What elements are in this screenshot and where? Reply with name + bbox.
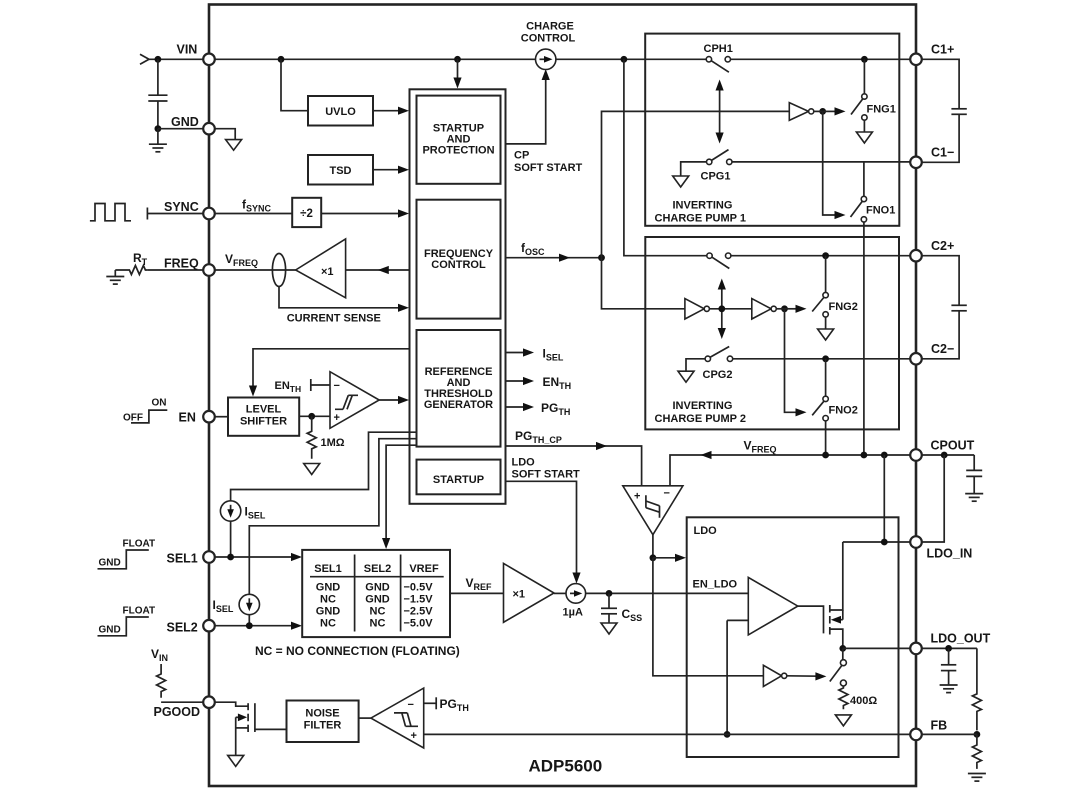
resistor RT at FREQ [115,266,147,275]
svg-text:+: + [411,730,417,742]
terminal PGTH input [424,702,437,704]
wire VREF table to buffer [450,592,504,594]
wire CPG2 to ground [686,359,705,371]
wire arrow to FNG2 [785,308,800,310]
ground earth at LDO_OUT cap [940,685,958,693]
svg-text:LDO_OUT: LDO_OUT [931,632,991,646]
svg-text:LEVEL: LEVEL [246,404,282,416]
resistor feedback divider bottom [972,734,981,769]
block FREQUENCY CONTROL [417,200,501,319]
node LDO_OUT cap tap [945,645,952,652]
svg-text:VIN: VIN [177,43,198,57]
node FB divider junction [974,731,981,738]
wire VIN down into startup block [457,59,459,80]
wire GND lead below to earth [157,129,159,144]
svg-text:SEL1: SEL1 [314,563,342,575]
wire external CPOUT to LDO_IN [922,455,945,542]
svg-text:C2+: C2+ [931,239,954,253]
wire comparator output [652,535,654,558]
current source 1uA [566,584,586,604]
pin PGOOD [203,696,215,708]
wire arrow to FNG1 [823,110,838,112]
current source ISEL 2 [239,594,259,614]
wire EN comparator to reference block [379,399,401,401]
table SEL decode box [302,550,450,637]
wire LDO_OUT external [922,647,977,649]
svg-text:−0.5V: −0.5V [404,582,434,594]
svg-text:INVERTING: INVERTING [673,200,733,212]
wire FB pin to divider [922,733,977,735]
box INVERTING CHARGE PUMP 1 [645,34,899,226]
svg-text:SOFT START: SOFT START [514,162,583,174]
wire FB line across to pin [424,733,911,735]
wire VIN to UVLO [281,59,308,110]
svg-text:GND: GND [316,582,341,594]
wire FNO1 down to VFREQ line [863,222,865,455]
transistor PGOOD NMOS channel bar [247,703,249,710]
block STARTUP AND PROTECTION [417,96,501,184]
input chevron VIN source [140,54,149,64]
node CSS tap [606,590,613,597]
svg-text:GND: GND [99,625,121,636]
node CP2 gate drive tee [781,305,788,312]
wire FNO2 down to VFREQ line [825,421,827,455]
switch discharge 400 ohm [842,648,844,660]
wire SYNC to divider [215,213,293,215]
resistor 400 ohm [839,686,848,709]
svg-text:FREQ: FREQ [164,257,199,271]
pin LDO_OUT [910,643,922,655]
wire GND pin lead [158,128,204,130]
node SEL1 junction [227,554,234,561]
svg-text:GND: GND [365,582,390,594]
block STARTUP [417,460,501,495]
node VFREQ FNO1 junction [861,452,868,459]
block NOISE FILTER [287,701,359,743]
svg-text:VREF: VREF [409,563,439,575]
svg-text:÷2: ÷2 [300,208,313,220]
ground earth below input cap [149,144,167,152]
transistor body arrow NMOS [236,716,243,718]
pin VIN [203,54,215,66]
resistor 1M [307,416,316,459]
svg-text:+: + [634,491,640,503]
switch CPG1 [707,159,712,164]
wire LDO soft start to 1uA source [506,481,577,576]
svg-text:C1−: C1− [931,146,954,160]
ground earth at divider [968,774,986,782]
node EN_LDO control tee [650,554,657,561]
ground triangle at PGOOD FET [228,755,244,766]
svg-text:1MΩ: 1MΩ [321,437,345,449]
ground triangle below FNG2 [825,317,827,328]
wire VIN rail [149,58,707,60]
capacitor input VIN-GND [157,59,159,95]
central control block outer box [410,89,506,504]
wire CPG1 to C1- pin [732,161,911,163]
wire level shifter to comparator [299,415,330,417]
hysteresis glyph soft start comparator [646,495,660,518]
svg-text:FNO2: FNO2 [829,405,858,417]
transistor drain tap lower [830,629,843,648]
inverter discharge control [763,665,781,686]
wire gate from noise filter [255,728,287,730]
wire VIN down to CP2 input [624,59,707,255]
wire control into LDO box [653,557,678,559]
transistor gate bar [254,703,256,732]
outer IC boundary box ADP5600 [209,5,916,787]
wire EN_LDO line to error amp [586,592,749,594]
wire FREQ pin to buffer output [215,269,296,271]
svg-text:EN_LDO: EN_LDO [693,579,738,591]
node C1+ FNG1 tap [861,56,868,63]
ground triangle at CSS [601,623,617,634]
svg-text:OFF: OFF [123,413,143,424]
wire divider to frequency control [321,213,401,215]
capacitor external C1 [922,59,960,108]
pin FREQ [203,264,215,276]
svg-text:ADP5600: ADP5600 [529,757,603,776]
wire frequency control to buffer input [346,269,410,271]
hysteresis glyph EN comparator [335,395,358,409]
svg-text:FB: FB [931,719,948,733]
wire reference to ISEL source 2 [249,439,416,595]
double arrow CP2 switch control [721,286,723,333]
svg-text:×1: ×1 [321,266,334,278]
svg-text:NOISE: NOISE [305,708,339,720]
wire ISEL source 1 to SEL1 line [230,521,232,557]
current source ISEL 1 [220,501,240,521]
comparator PGOOD [371,688,424,748]
table header rule [310,576,444,578]
node CPOUT to LDO_IN link [941,452,948,459]
block TSD [308,155,373,185]
wire EN feedback from reference block [253,349,410,388]
pin SYNC [203,208,215,220]
wire inverter1 to inverter2 [709,308,751,310]
svg-text:NC: NC [370,606,386,618]
wire TSD to startup block [373,169,401,171]
svg-text:FLOAT: FLOAT [123,539,156,550]
node VIN input cap junction [155,56,162,63]
svg-text:CHARGE PUMP 1: CHARGE PUMP 1 [655,213,746,225]
pin CPOUT [910,449,922,461]
node C2- FNO2 tap [822,355,829,362]
node fOSC clock tee [598,254,605,261]
resistor feedback divider top [972,648,981,730]
svg-text:−: − [334,380,340,392]
switch FNO1 [863,162,865,196]
wire inverter to switch [787,675,819,677]
node C2+ FNG2 tap [822,252,829,259]
wire clock to CP1 inverter [602,111,790,257]
svg-text:SHIFTER: SHIFTER [240,416,287,428]
svg-text:GND: GND [365,594,390,606]
svg-text:−: − [408,699,414,711]
svg-text:SEL1: SEL1 [167,552,198,566]
wire PGOOD pin to FET drain [215,702,249,706]
transistor source tap [236,727,248,729]
wire FREQ external lead [147,269,203,271]
step symbol GND/FLOAT at SEL1 [98,550,149,569]
wire LDO_OUT line to pin [843,647,911,649]
svg-text:ON: ON [152,398,167,409]
node VIN to CP2 tee [621,56,628,63]
svg-text:CPG2: CPG2 [703,369,733,381]
inverter CP2 first [685,299,704,319]
svg-text:−1.5V: −1.5V [404,594,434,606]
table column divider 1 [354,555,356,632]
svg-text:CONTROL: CONTROL [431,259,486,271]
svg-text:SYNC: SYNC [164,200,199,214]
wire GND pin to internal ground [215,129,236,140]
wire VFREQ line to comparator minus [670,455,911,486]
terminal ENTH [310,379,312,391]
wire CPOUT external [922,454,975,456]
svg-text:PGOOD: PGOOD [154,705,201,719]
svg-text:FNG1: FNG1 [867,104,896,116]
svg-text:400Ω: 400Ω [850,695,877,707]
block LEVEL SHIFTER [228,398,299,436]
svg-text:FNO1: FNO1 [866,205,895,217]
node VFREQ FNO2 junction [822,452,829,459]
svg-text:TSD: TSD [330,165,352,177]
svg-text:LDO: LDO [512,457,536,469]
wire ISEL source 2 to SEL2 line [248,615,250,626]
svg-text:−: − [664,488,670,500]
svg-text:GND: GND [316,606,341,618]
svg-text:−5.0V: −5.0V [404,618,434,630]
pin C2- [910,353,922,365]
svg-text:GND: GND [99,558,121,569]
node 1M tap [308,413,315,420]
wire SEL1 pin to table [215,556,296,558]
double arrow CP1 switch control [719,87,721,137]
svg-text:UVLO: UVLO [325,106,356,118]
wire SEL2 pin to table [215,625,296,627]
pin SEL2 [203,620,215,632]
wire LDO_IN line [843,541,911,543]
box INVERTING CHARGE PUMP 2 [645,237,899,429]
current source CHARGE CONTROL [536,49,556,69]
node LDO_OUT inner junction [839,645,846,652]
transistor LDO pass PMOS channel bar [829,605,831,613]
svg-text:NC: NC [370,618,386,630]
node VFREQ LDO feed junction [881,452,888,459]
pin C1- [910,157,922,169]
pin LDO_IN [910,536,922,548]
ground earth at RT [114,270,116,276]
node CP1 gate drive tee [819,108,826,115]
wire FB feedback vertical [726,620,728,734]
switch FNG2 [825,256,827,293]
inverter CP1 [789,103,808,121]
svg-text:NC: NC [320,594,336,606]
switch FNG1 [863,59,865,94]
wire CPG1 to ground [681,162,707,176]
block divide-by-2 [292,198,321,227]
terminal tick SYNC [146,208,148,220]
block UVLO [308,96,373,126]
current sense ellipse [272,254,285,287]
wire CPG2 to C2- pin [733,358,911,360]
svg-text:×1: ×1 [513,589,526,601]
svg-text:+: + [334,412,340,424]
wire control down to discharge inverter [653,558,764,676]
svg-text:STARTUP: STARTUP [433,474,484,486]
wire SYNC external lead [147,213,203,215]
wire PGTH output arrow [506,406,527,408]
wire PGOOD external lead [161,701,203,703]
step symbol GND/FLOAT at SEL2 [98,617,149,636]
wire current sense from ellipse [279,287,401,308]
comparator EN threshold [330,372,379,429]
node VIN UVLO tap [278,56,285,63]
pin EN [203,411,215,423]
buffer x1 FREQ drive [296,239,346,298]
wire reference to ISEL source 1 [231,432,417,501]
svg-text:CHARGE PUMP 2: CHARGE PUMP 2 [655,413,746,425]
svg-text:NC: NC [320,618,336,630]
svg-text:FILTER: FILTER [304,720,342,732]
wire EN pin to level shifter [215,416,229,418]
transistor body arrow [834,619,843,621]
pin C2+ [910,250,922,262]
wire PGTH_CP to soft start comparator [506,446,642,486]
svg-text:C1+: C1+ [931,43,954,57]
wire CPH2 to C2+ pin [731,255,911,257]
node FB feedback tap [724,731,731,738]
node VIN startup tap [454,56,461,63]
node GND cap junction [155,125,162,132]
wire feedback input to amp [727,619,748,621]
svg-text:INVERTING: INVERTING [673,400,733,412]
switch CPH2 unlabeled [707,253,712,258]
wire reference to SEL decode table [386,445,416,541]
svg-text:1µA: 1µA [563,607,583,619]
transistor source tap upper [830,542,843,610]
svg-text:CPOUT: CPOUT [931,439,975,453]
capacitor CSS [608,593,610,608]
ground triangle at GND pin [226,140,242,151]
svg-text:SEL2: SEL2 [364,563,392,575]
wire CPOUT rail down to LDO_IN [883,455,885,542]
comparator soft start control [623,486,683,535]
svg-text:C2−: C2− [931,342,954,356]
block REFERENCE AND THRESHOLD GENERATOR [417,330,501,447]
svg-text:NC = NO CONNECTION (FLOATING): NC = NO CONNECTION (FLOATING) [255,644,460,658]
svg-text:CPG1: CPG1 [701,171,731,183]
op-amp LDO error amplifier [748,577,798,635]
wire VIN to C1+ after switch CPH1 [730,58,911,60]
wire CP2 drive down to FNO2 [785,309,800,413]
wire buffer to 1uA source [554,592,566,594]
pin FB [910,729,922,741]
wire CP soft start to charge control [506,77,546,144]
capacitor external LDO_OUT [948,648,950,664]
wire amp output to gate [798,606,824,633]
table column divider 2 [400,555,402,632]
ground triangle below 400 ohm [835,715,851,726]
node CP2 control tee [718,305,725,312]
pin GND [203,123,215,135]
wire fOSC from frequency control [506,257,602,259]
pin C1+ [910,54,922,66]
box LDO [687,517,899,757]
svg-text:LDO_IN: LDO_IN [927,547,973,561]
svg-text:CPH1: CPH1 [704,43,733,55]
capacitor external CPOUT [973,455,975,470]
svg-text:GENERATOR: GENERATOR [424,399,493,411]
node LDO_IN feed junction [881,539,888,546]
wire ISEL output arrow [506,352,527,354]
capacitor external C2 [922,256,960,305]
wire comparator to noise filter [359,717,371,719]
switch CPG2 [705,356,710,361]
wire clock to CP2 inverter [602,258,685,309]
step symbol OFF/ON at EN [131,410,167,423]
svg-text:CURRENT SENSE: CURRENT SENSE [287,313,381,325]
inverter CP2 second [752,299,771,319]
svg-text:SEL2: SEL2 [167,621,198,635]
wire CP1 drive down to FNO1 [823,111,838,215]
wire ENTH output arrow [506,380,527,382]
ground earth at CPOUT cap [965,494,983,502]
svg-text:−2.5V: −2.5V [404,606,434,618]
node SEL2 junction [246,622,253,629]
hysteresis glyph PGOOD comparator [394,713,418,726]
buffer x1 VREF [504,563,555,622]
square wave symbol at SYNC [90,204,131,221]
svg-text:SOFT START: SOFT START [512,469,581,481]
svg-text:EN: EN [179,411,196,425]
svg-text:CHARGE: CHARGE [526,21,574,33]
ground triangle below FNG1 [863,120,865,131]
svg-text:GND: GND [171,115,199,129]
svg-text:CONTROL: CONTROL [521,33,576,45]
svg-text:LDO: LDO [694,525,718,537]
svg-text:FNG2: FNG2 [829,301,858,313]
ground triangle at 1M [304,464,320,475]
svg-text:CP: CP [514,150,529,162]
switch FNO2 [825,359,827,396]
svg-text:PROTECTION: PROTECTION [422,145,494,157]
pin SEL1 [203,551,215,563]
svg-text:FLOAT: FLOAT [123,606,156,617]
wire UVLO to startup block [373,110,401,112]
